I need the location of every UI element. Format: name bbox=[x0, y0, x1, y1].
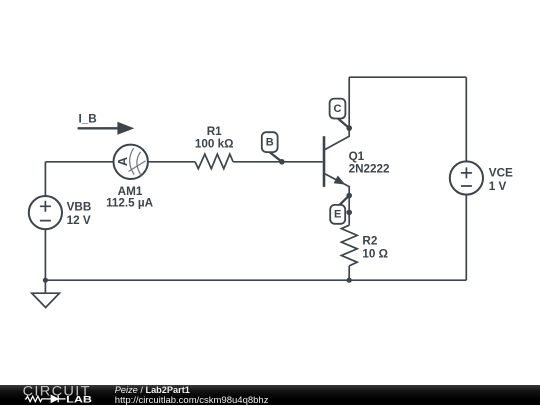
svg-text:12 V: 12 V bbox=[67, 214, 91, 227]
collector pin bbox=[325, 128, 349, 150]
wire right vertical lower bbox=[465, 195, 467, 281]
wire top-left horizontal bbox=[45, 161, 113, 163]
emitter arrow bbox=[335, 177, 344, 184]
junction dot emitter-R2 bbox=[346, 210, 352, 216]
svg-text:R2: R2 bbox=[362, 234, 377, 247]
footer text bbox=[115, 385, 269, 406]
svg-text:10 Ω: 10 Ω bbox=[362, 247, 388, 260]
current arrow I_B bbox=[78, 113, 135, 135]
voltage source VBB bbox=[29, 196, 62, 229]
wire collector vertical bbox=[348, 77, 350, 128]
junction dot node E bbox=[346, 193, 352, 199]
wire top rail bbox=[349, 76, 466, 78]
ammeter AM1 bbox=[114, 145, 148, 179]
svg-text:112.5 µA: 112.5 µA bbox=[106, 196, 154, 209]
node flag B bbox=[262, 132, 285, 164]
resistor R1 bbox=[195, 154, 233, 169]
wire R2 to bottom rail bbox=[348, 266, 350, 280]
wire ground stub bbox=[44, 280, 46, 293]
wire left vertical upper bbox=[44, 162, 46, 196]
wire left vertical lower bbox=[44, 229, 46, 280]
svg-text:I_B: I_B bbox=[79, 113, 97, 126]
base bar bbox=[323, 136, 326, 187]
junction dot node B bbox=[279, 159, 285, 165]
logo resistor + diode squiggle bbox=[25, 395, 66, 402]
svg-text:A: A bbox=[115, 156, 130, 166]
svg-text:100 kΩ: 100 kΩ bbox=[195, 137, 234, 150]
svg-text:C: C bbox=[334, 103, 342, 115]
wire right vertical upper bbox=[465, 77, 467, 161]
transistor Q1 bbox=[324, 128, 349, 195]
svg-text:VBB: VBB bbox=[67, 201, 92, 214]
junction dot R2 bottom bbox=[347, 278, 352, 283]
emitter pin bbox=[325, 174, 349, 196]
voltage source VCE bbox=[450, 161, 483, 194]
wire emitter to R2 bbox=[348, 196, 350, 226]
svg-text:2N2222: 2N2222 bbox=[349, 162, 390, 175]
node flag E bbox=[330, 193, 352, 224]
svg-text:1 V: 1 V bbox=[489, 180, 507, 193]
svg-text:Q1: Q1 bbox=[349, 150, 365, 163]
resistor R2 bbox=[341, 225, 357, 266]
svg-text:LAB: LAB bbox=[66, 394, 92, 405]
svg-text:E: E bbox=[334, 209, 341, 221]
node flag C bbox=[330, 99, 352, 131]
CircuitLab logo bbox=[0, 385, 100, 406]
svg-text:B: B bbox=[266, 136, 274, 148]
junction dot node C bbox=[346, 125, 352, 131]
footer bar bbox=[0, 385, 540, 406]
svg-text:VCE: VCE bbox=[489, 166, 513, 179]
wire AM1 to R1 bbox=[148, 161, 195, 163]
wire bottom rail bbox=[45, 279, 466, 281]
ground bbox=[32, 293, 60, 307]
junction dot ground node bbox=[43, 278, 48, 283]
wire R1 to base bbox=[233, 161, 323, 163]
svg-text:R1: R1 bbox=[207, 125, 222, 138]
